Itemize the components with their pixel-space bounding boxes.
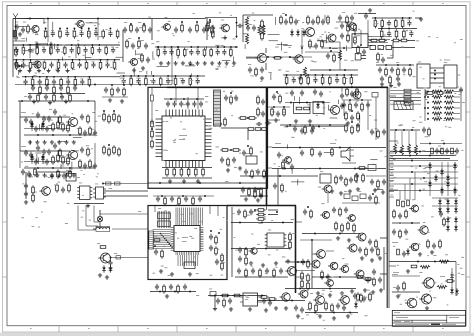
components BG <box>357 276 363 279</box>
wire y233 <box>302 233 360 235</box>
components row AX <box>237 269 241 271</box>
wire v x26 <box>25 172 27 199</box>
components cluster Q <box>377 54 380 60</box>
resistor R142 <box>261 21 264 27</box>
ic U2 pins left <box>171 227 175 229</box>
wire AA rail <box>285 102 330 104</box>
wire x266 stub <box>266 206 268 211</box>
small boxes row CG <box>344 194 350 199</box>
heavy top line micro-right <box>227 205 296 207</box>
components AT <box>237 210 241 212</box>
relay boxes row <box>370 46 376 50</box>
node dots row H <box>157 46 159 48</box>
components row C <box>13 59 120 61</box>
wire y158 <box>390 158 450 160</box>
components BW <box>368 240 372 242</box>
components kb right <box>422 128 426 130</box>
components row H <box>155 46 238 48</box>
zone letter bottom 4 <box>206 327 208 330</box>
resistor col AZ <box>335 223 338 229</box>
transistor Q313 <box>349 215 356 222</box>
ic U2 pins right <box>200 227 204 229</box>
pin fan left lines <box>153 229 171 231</box>
wire CC verticals <box>343 100 345 116</box>
resistor ladder topleft <box>157 211 159 228</box>
squiggle resistor row 6 <box>427 118 429 120</box>
components cluster T <box>21 170 25 172</box>
ground row ch1 <box>29 140 31 142</box>
capacitor C104 <box>21 28 25 30</box>
matrix row wire 1 <box>389 160 458 162</box>
matrix row wire 3 <box>389 171 458 173</box>
components row B <box>13 44 120 46</box>
wire webbing top-right band <box>283 45 292 47</box>
components ch1 right <box>80 115 84 117</box>
zone tick top 2 <box>117 2 119 6</box>
wire y266 <box>392 275 420 277</box>
resistor R203 <box>62 124 65 130</box>
divider double line right column <box>386 87 388 308</box>
transistor Q503 <box>341 296 350 305</box>
ground BTg <box>249 307 251 309</box>
capacitor C206 <box>36 146 40 148</box>
capacitor C502 <box>262 299 266 301</box>
capacitor BT3 <box>294 306 298 308</box>
components cluster K <box>307 17 310 23</box>
transistor Q102 <box>77 20 84 27</box>
ic U1 pins right <box>205 118 212 120</box>
box diode pack AB <box>313 102 324 114</box>
connector CN1 fan <box>394 102 413 110</box>
wire bracket from IC201 b <box>85 206 87 227</box>
wire y155 <box>390 155 456 157</box>
ground row S2g <box>33 100 35 102</box>
wire rail y84 <box>15 84 172 86</box>
diode pair right2 <box>446 218 450 221</box>
wire v bus left <box>424 89 426 121</box>
vertical BSv <box>214 296 216 308</box>
components BI <box>439 212 443 214</box>
crystal Y201 <box>97 216 102 221</box>
wire y288 <box>285 288 356 290</box>
resistor R207 <box>62 157 65 163</box>
ground G100 <box>19 32 21 34</box>
wire v x278 <box>277 169 279 206</box>
transistor Q109 <box>257 53 266 62</box>
transistor Q311 <box>251 248 257 254</box>
components U1 box right col <box>257 97 260 103</box>
wire y125 <box>280 124 345 126</box>
ic U1 pins bottom <box>165 161 167 168</box>
diode D310 <box>102 267 106 270</box>
zone tick bottom 1 <box>58 326 60 332</box>
node dots top rail <box>29 18 31 20</box>
wire q109 base <box>246 57 257 59</box>
wire net corner <box>26 18 44 20</box>
section box U1 area <box>148 87 268 188</box>
zone tick top 1 <box>58 2 60 6</box>
diode BL1 <box>450 274 454 277</box>
wire y300 <box>258 300 305 302</box>
transistor Q314 <box>288 267 297 276</box>
diode matrix D602 <box>434 176 438 179</box>
ground row BYg <box>364 288 366 290</box>
resistor grid BD <box>301 273 304 279</box>
ground G310 <box>99 273 101 275</box>
bus resistors <box>404 89 411 92</box>
wire v x95 drop <box>94 101 96 110</box>
diode BU3 <box>354 303 358 306</box>
zone letter bottom 7 <box>383 327 385 330</box>
transistor Q320 <box>353 91 361 99</box>
wire y261 <box>389 261 456 263</box>
label texture channels <box>61 165 64 168</box>
wire bracket <box>242 15 244 42</box>
transistor Q402 <box>420 226 428 234</box>
capacitor C140 <box>246 26 250 28</box>
capacitor group BX <box>358 248 362 250</box>
resistor RZ1 <box>246 17 249 27</box>
small part BS <box>210 292 216 297</box>
resistor R310 <box>100 246 106 249</box>
ground CJg <box>275 118 277 120</box>
ic IC201 <box>80 186 91 200</box>
capacitor C208 <box>53 144 57 146</box>
components CI <box>272 95 276 97</box>
box small AJ <box>320 174 331 183</box>
resistor cluster AR <box>221 255 224 261</box>
label texture right column mid <box>417 243 420 246</box>
connector wires <box>430 67 444 69</box>
zone letter top 7 <box>383 2 385 5</box>
label power <box>376 61 379 64</box>
title block row line 2 <box>392 319 447 321</box>
ic U2 QFP body <box>174 226 200 252</box>
title block text 1 <box>394 311 400 314</box>
transistor Q321 <box>349 244 357 252</box>
wire y92 <box>28 93 85 95</box>
title block row line 3 <box>392 322 465 324</box>
wire y195 <box>240 195 268 197</box>
components BH <box>393 211 396 217</box>
heavy vertical x295.5 <box>295 205 297 293</box>
resistor R205 <box>52 157 55 163</box>
label texture micro box <box>223 216 225 219</box>
resistor R221 <box>59 150 62 156</box>
transistor Q104 <box>130 58 137 65</box>
transistor Q403 <box>411 243 419 251</box>
zone tick top 6 <box>353 2 355 6</box>
components kb right2 <box>431 148 434 154</box>
transistor Q320b <box>317 250 326 259</box>
label row topmid <box>150 79 153 82</box>
matrix row wire 4 <box>389 177 458 179</box>
capacitor C221 <box>29 153 33 155</box>
resistor row RC <box>397 200 400 206</box>
vert hatch below U2 <box>177 255 179 266</box>
title block text 3 <box>449 316 459 319</box>
components row O <box>372 17 412 19</box>
ground G301 <box>309 119 311 121</box>
wire v x312 <box>311 240 313 288</box>
components cluster AF <box>345 125 348 131</box>
wire y13 left stub <box>13 18 30 20</box>
title block text 2 <box>396 316 408 319</box>
matrix dots <box>411 160 413 162</box>
capacitor C141 <box>252 26 256 28</box>
wire bottom connectors <box>296 221 302 223</box>
wire power rail <box>376 64 414 66</box>
resistor R105 <box>27 26 30 32</box>
components row V <box>56 185 59 191</box>
pin fan stair dots <box>160 233 162 235</box>
resistor col left U1 <box>151 121 154 127</box>
ground row BXg <box>361 256 363 258</box>
resistor R131 <box>212 31 215 37</box>
antenna ANT1 <box>15 17 17 31</box>
capacitor C207 <box>47 150 51 152</box>
divider second line <box>388 87 390 308</box>
wire webbing top-left band <box>61 57 63 61</box>
components CO <box>326 54 330 56</box>
components row M <box>248 68 252 70</box>
components CE <box>359 167 365 170</box>
wire ic pins right <box>372 36 392 38</box>
capacitor row AA0 <box>290 91 294 93</box>
components row N <box>283 74 358 76</box>
ground BPg <box>166 294 168 296</box>
capacitor C201 <box>24 118 28 120</box>
title block col line 2 <box>411 320 413 323</box>
node dots connector <box>434 70 436 72</box>
label texture mid band <box>374 167 377 170</box>
wire y147 <box>272 147 386 149</box>
components CJ <box>271 109 274 115</box>
components cluster E <box>123 28 127 30</box>
components row D <box>22 76 95 78</box>
wire ch2 rail <box>24 167 95 169</box>
wire y292 <box>392 291 420 293</box>
ground BT4 <box>285 306 287 308</box>
zone tick left 4 <box>3 221 8 223</box>
speaker LS1 <box>341 147 350 161</box>
transistor Q301 <box>330 105 339 114</box>
transistor Q108 <box>328 34 336 42</box>
resistor RZ4 <box>339 50 342 60</box>
wire ch2 stubs <box>31 154 33 164</box>
wire y312 <box>305 312 358 314</box>
resistor R160 <box>371 39 377 42</box>
diode D141 <box>296 31 300 34</box>
wire cluster x110 rail <box>102 96 128 98</box>
pin hatch top <box>175 208 177 226</box>
capacitor group AU <box>238 248 242 250</box>
zone tick right 4 <box>466 221 470 223</box>
ground row ch2 <box>29 173 31 175</box>
diode matrix D603 <box>440 189 444 192</box>
transistor Q511 <box>356 270 364 278</box>
components CD <box>370 130 374 132</box>
transistor Q502 <box>316 296 325 305</box>
ground BN <box>426 306 428 308</box>
diode cluster right <box>438 200 442 203</box>
wire v x123 <box>122 30 124 62</box>
components BU <box>309 303 312 309</box>
ic U1 pins top <box>165 110 167 117</box>
cluster bottom right U1 <box>222 149 228 152</box>
wire q cluster links <box>312 253 316 255</box>
transistor Q312 <box>322 211 329 218</box>
zone letter top 4 <box>206 2 208 5</box>
label right col <box>392 241 398 244</box>
wire ch2 input <box>20 150 70 152</box>
transistor Q322 <box>300 290 308 298</box>
connector J802 <box>444 65 457 88</box>
label texture right of micro <box>289 274 292 277</box>
components CL <box>254 191 257 197</box>
wire y198 r <box>432 197 458 199</box>
wire CP v <box>360 30 362 44</box>
diode D102 <box>49 44 53 47</box>
cap row above U1 <box>166 102 170 104</box>
transistor Q103 <box>34 61 41 68</box>
components CN <box>309 41 312 47</box>
bus heavy line y87 <box>167 86 388 88</box>
components AL <box>273 184 277 186</box>
wire webbing top-mid band <box>133 67 135 76</box>
ic box top right <box>352 34 368 48</box>
components row U <box>50 174 54 176</box>
label texture top-mid band <box>152 58 155 61</box>
resistor BT2 <box>261 296 267 299</box>
label bottom2 <box>310 292 313 295</box>
matrix col wire 1 <box>429 162 431 196</box>
transistor Q310 <box>101 253 111 263</box>
wire under U1 <box>162 167 212 169</box>
wire y222 <box>231 222 293 224</box>
connector J801 <box>417 64 430 88</box>
resistor RZ3 <box>275 57 281 60</box>
zone letter top 8 <box>442 2 444 5</box>
capacitor C210 <box>24 184 28 186</box>
wire y183 link <box>103 183 148 185</box>
ground G120 <box>133 68 135 70</box>
components right of U2 <box>209 235 213 237</box>
resistor high left U1 <box>150 95 153 101</box>
wire ch mid rails <box>24 128 70 130</box>
matrix col wire 3 <box>447 162 449 196</box>
wire mid rail 1 <box>13 44 120 46</box>
wire CH links <box>342 162 356 164</box>
wire Q110 net <box>301 30 303 54</box>
label texture top right corner <box>416 39 419 42</box>
wire CK rail <box>153 195 214 197</box>
components BC <box>301 260 305 262</box>
wire top caps <box>164 98 204 100</box>
transistor Q106 <box>222 24 230 32</box>
wire y248 <box>231 248 290 250</box>
wire ch1 stubs <box>31 121 33 131</box>
diode D142 <box>302 31 306 34</box>
zone letter top 3 <box>147 2 149 5</box>
capacitor C211 <box>24 192 28 194</box>
transistor Q501 <box>282 293 290 301</box>
ground BKg <box>419 252 421 254</box>
label marks box <box>158 207 161 210</box>
scanner edge band bottom <box>0 333 474 336</box>
wire ic out <box>104 190 148 192</box>
zone tick top 3 <box>176 2 178 6</box>
diode D205 <box>30 156 34 159</box>
components CF <box>370 180 374 182</box>
label texture right column top <box>441 148 443 151</box>
wire y223 <box>392 222 420 224</box>
wire net Q106 <box>205 16 237 18</box>
components cluster F <box>126 41 129 47</box>
small box B1 <box>66 174 76 182</box>
wire ch1 input <box>20 116 70 118</box>
bus stubs right of divider <box>389 152 394 154</box>
components BR <box>216 299 220 301</box>
components row G <box>174 28 178 30</box>
matrix row wire 6 <box>389 190 458 192</box>
wire micro top entries <box>154 205 156 212</box>
wire y277 <box>235 276 288 278</box>
capacitor BU2 <box>336 304 340 306</box>
transistor Q315 <box>312 260 320 268</box>
capacitor C103 <box>15 25 19 27</box>
resistor R145 <box>354 25 357 31</box>
title block col line 1 <box>446 315 448 323</box>
components row I <box>120 75 205 77</box>
capacitor C202 <box>36 113 40 115</box>
resistor R120 <box>141 55 144 61</box>
transistor Q110 <box>295 55 303 63</box>
transistor Q111 <box>349 23 357 31</box>
components CH <box>368 196 372 198</box>
resistor bank B <box>103 147 106 153</box>
components BZ <box>357 294 360 300</box>
resistor boxes BQ <box>222 294 228 297</box>
components BJ <box>392 230 396 232</box>
wire y70 right <box>310 69 358 71</box>
wire webbing channels <box>35 152 41 154</box>
small box in U1 area <box>246 156 257 164</box>
wire net loop <box>152 18 207 20</box>
components BO <box>447 280 453 283</box>
components cluster AM <box>241 188 245 190</box>
wire y296 row <box>208 295 265 297</box>
wire col drops <box>399 191 401 201</box>
matrix row wire 5 <box>389 183 458 185</box>
components BK <box>427 241 430 247</box>
ic U1 body <box>162 116 205 161</box>
wire loop top <box>119 18 152 20</box>
wire CO rail <box>305 51 338 53</box>
wire y291 <box>150 291 196 293</box>
wire CM links <box>336 21 352 23</box>
ic U1 label <box>179 134 187 137</box>
resistor col kb <box>394 131 396 145</box>
wire v bus right <box>460 89 462 121</box>
hatch bus connector <box>214 90 221 126</box>
wire right col entries <box>389 95 396 97</box>
transistor Q316 <box>341 265 348 272</box>
zone letter bottom 2 <box>88 327 90 330</box>
transistor Q107 <box>306 28 315 37</box>
wire y151 <box>390 151 456 153</box>
ground CCg <box>347 121 349 123</box>
